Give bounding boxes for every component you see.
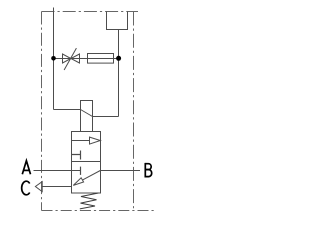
wire: right vertical from vent box: [118, 30, 120, 117]
wire: main horizontal through throttle and orifice: [54, 58, 119, 60]
label C: [22, 181, 30, 195]
position 2 blocked port bar: [80, 167, 82, 175]
wire: horizontal to pilot box: [54, 109, 81, 111]
pilot actuator box with proportional diagonal: [81, 101, 93, 132]
wire: port A line: [34, 170, 81, 172]
wire: port B line: [100, 170, 140, 172]
valve body (2-position): [72, 132, 101, 194]
enclosure top border: [42, 11, 139, 13]
position 1 blocked port: [72, 151, 81, 160]
wire: horizontal into pilot box right: [93, 116, 119, 118]
label A: [22, 161, 30, 175]
wire: left vertical pilot line: [53, 12, 55, 110]
valve position divider: [72, 161, 101, 163]
vent box at top border: [107, 12, 128, 30]
wire: pilot line stub above top border: [53, 8, 55, 12]
wire: port C line: [42, 186, 72, 188]
position 2 flow diagonal: [82, 171, 100, 181]
pilot diagonal: [81, 110, 93, 117]
enclosure bottom border: [42, 210, 155, 212]
node: left junction dot: [51, 56, 56, 61]
label B: [145, 163, 151, 178]
orifice (fixed restrictor): [88, 54, 114, 64]
enclosure right border: [133, 12, 135, 211]
throttle valve (adjustable restrictor): [63, 48, 80, 70]
return spring: [80, 193, 99, 209]
position 2 flow arrowhead: [73, 178, 83, 186]
node: right junction dot: [116, 56, 121, 61]
position 1 flow path with arrow: [72, 140, 90, 142]
enclosure left border: [41, 12, 43, 211]
port C arrowhead: [35, 182, 42, 192]
